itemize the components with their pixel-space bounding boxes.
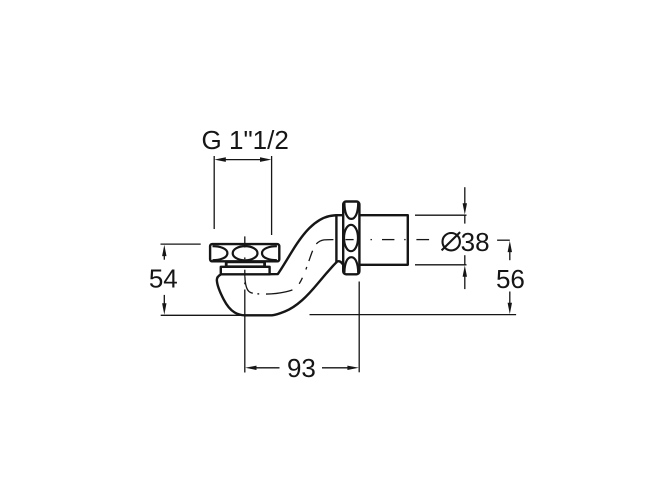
svg-text:54: 54 [149,264,178,294]
svg-text:G 1"1/2: G 1"1/2 [202,125,289,155]
svg-text:93: 93 [287,353,316,383]
svg-text:38: 38 [461,227,490,257]
svg-text:56: 56 [496,264,525,294]
